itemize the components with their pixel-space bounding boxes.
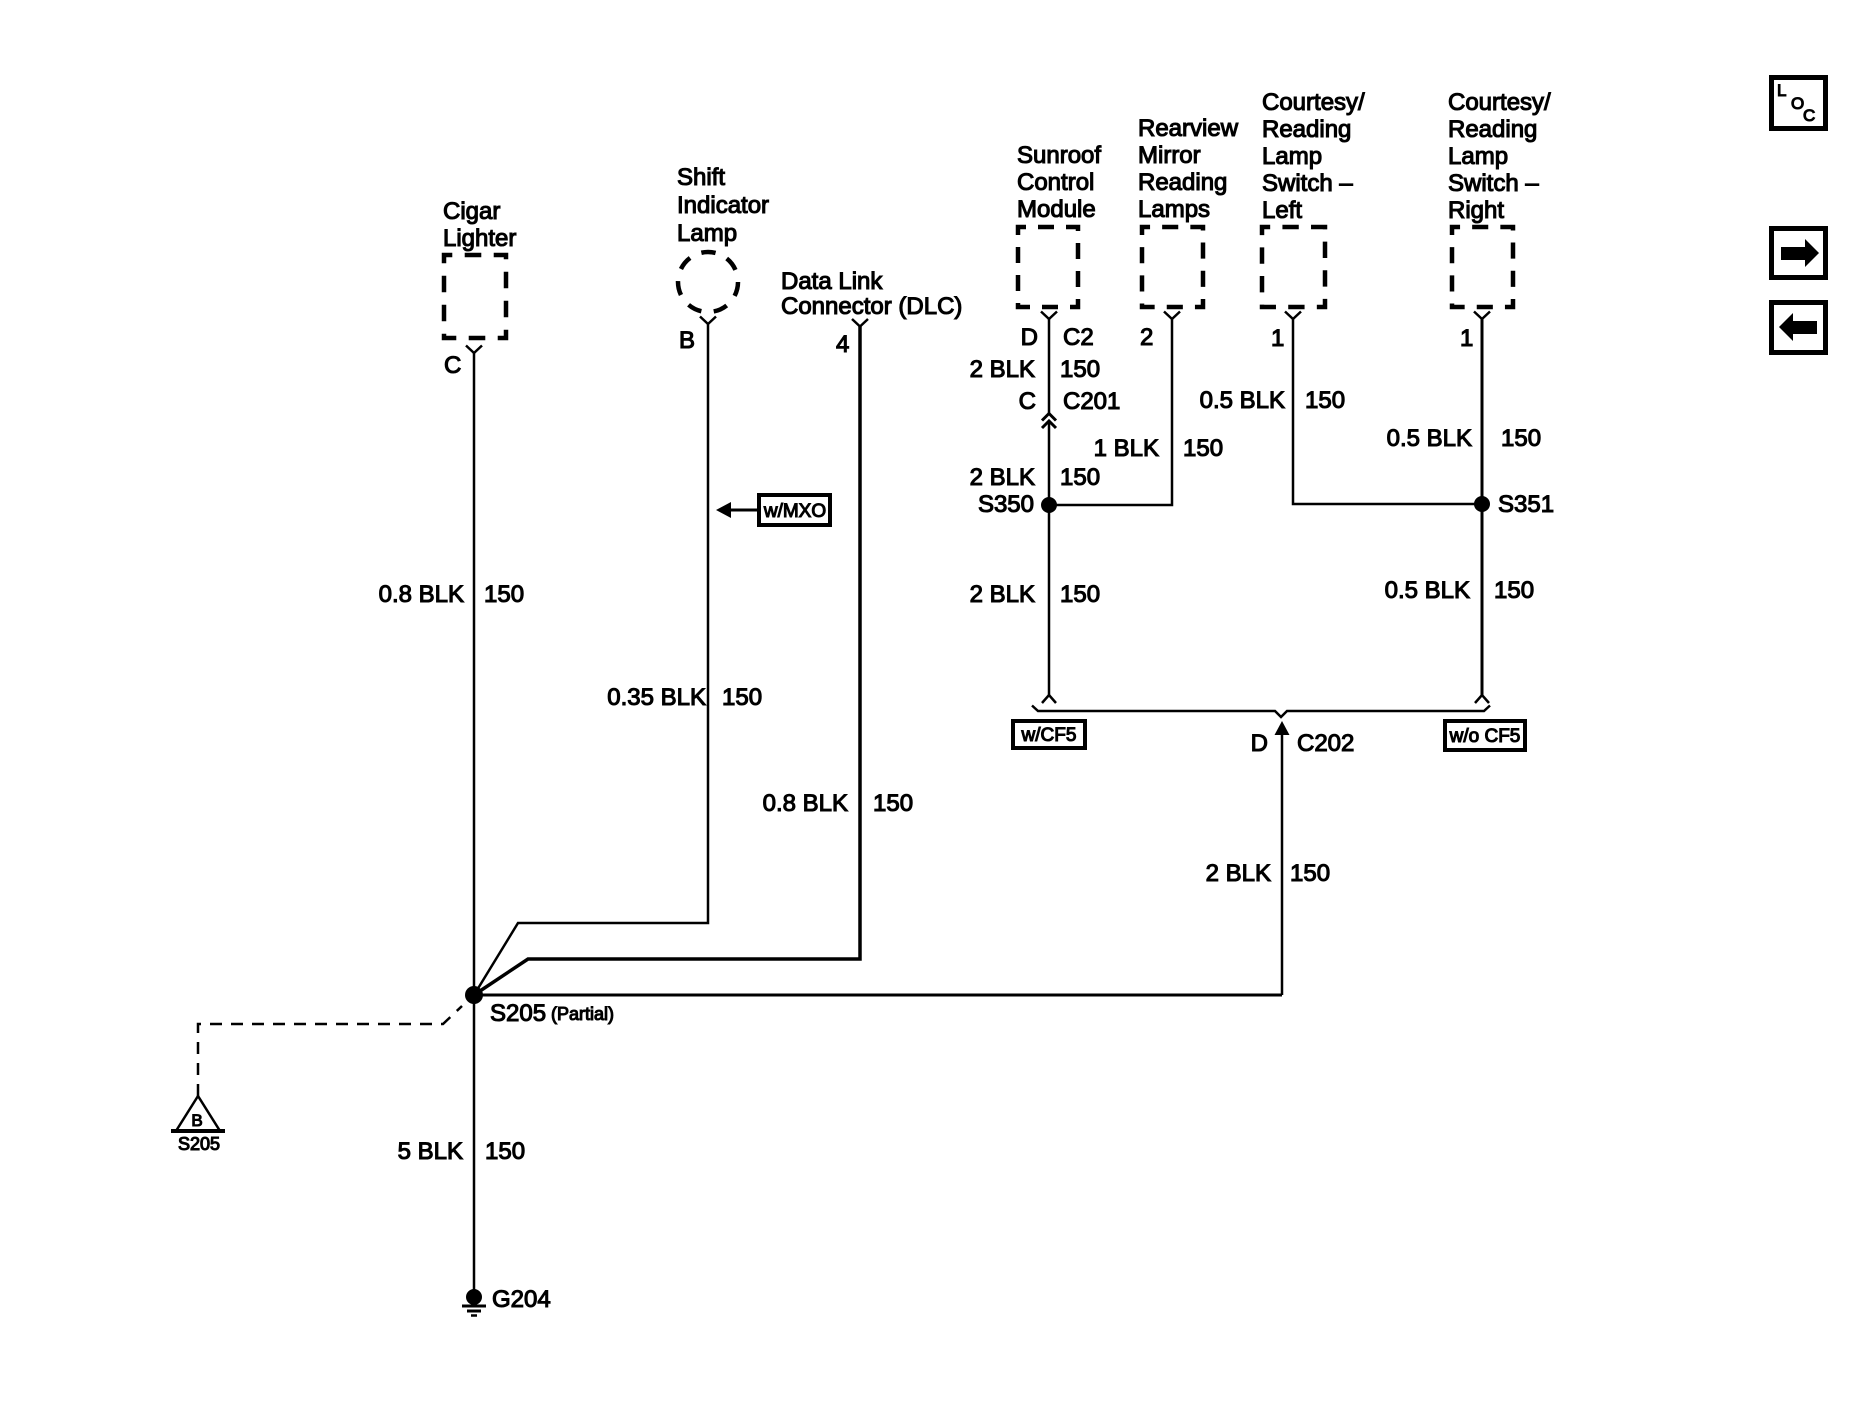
- svg-text:Connector (DLC): Connector (DLC): [781, 293, 962, 320]
- svg-text:L: L: [1777, 81, 1786, 100]
- svg-text:B: B: [191, 1111, 202, 1130]
- svg-text:G204: G204: [492, 1286, 551, 1313]
- svg-text:150: 150: [722, 684, 762, 711]
- svg-text:2: 2: [1140, 324, 1153, 351]
- svg-text:0.8 BLK: 0.8 BLK: [763, 790, 848, 817]
- svg-text:Reading: Reading: [1448, 116, 1537, 143]
- svg-text:Control: Control: [1017, 169, 1094, 196]
- svg-text:D: D: [1021, 324, 1038, 351]
- svg-text:C2: C2: [1063, 324, 1094, 351]
- svg-text:Sunroof: Sunroof: [1017, 142, 1101, 169]
- svg-text:Mirror: Mirror: [1138, 142, 1201, 169]
- svg-text:Shift: Shift: [677, 164, 725, 191]
- svg-text:Lamp: Lamp: [677, 220, 737, 247]
- svg-text:0.5 BLK: 0.5 BLK: [1387, 425, 1472, 452]
- svg-text:C: C: [1803, 106, 1815, 125]
- svg-text:S205: S205: [178, 1134, 220, 1154]
- svg-text:S350: S350: [978, 491, 1034, 518]
- svg-text:0.35 BLK: 0.35 BLK: [607, 684, 706, 711]
- svg-text:0.5 BLK: 0.5 BLK: [1385, 577, 1470, 604]
- svg-text:C201: C201: [1063, 388, 1120, 415]
- svg-text:Lamp: Lamp: [1262, 143, 1322, 170]
- svg-text:0.5 BLK: 0.5 BLK: [1200, 387, 1285, 414]
- svg-text:150: 150: [1060, 581, 1100, 608]
- svg-text:Courtesy/: Courtesy/: [1262, 89, 1365, 116]
- svg-text:Lamp: Lamp: [1448, 143, 1508, 170]
- svg-text:150: 150: [873, 790, 913, 817]
- svg-text:Lamps: Lamps: [1138, 196, 1210, 223]
- svg-text:4: 4: [836, 331, 849, 358]
- svg-text:150: 150: [1305, 387, 1345, 414]
- svg-text:150: 150: [1060, 464, 1100, 491]
- svg-text:Courtesy/: Courtesy/: [1448, 89, 1551, 116]
- svg-text:S351: S351: [1498, 491, 1554, 518]
- svg-text:Cigar: Cigar: [443, 198, 500, 225]
- svg-text:150: 150: [1501, 425, 1541, 452]
- svg-text:150: 150: [484, 581, 524, 608]
- svg-text:2 BLK: 2 BLK: [970, 581, 1035, 608]
- svg-text:Switch –: Switch –: [1448, 170, 1539, 197]
- svg-text:Reading: Reading: [1138, 169, 1227, 196]
- svg-text:Left: Left: [1262, 197, 1302, 224]
- svg-text:C202: C202: [1297, 730, 1354, 757]
- svg-text:(Partial): (Partial): [551, 1004, 614, 1024]
- svg-text:Switch –: Switch –: [1262, 170, 1353, 197]
- svg-text:150: 150: [1183, 435, 1223, 462]
- svg-text:Right: Right: [1448, 197, 1504, 224]
- svg-text:2 BLK: 2 BLK: [970, 464, 1035, 491]
- svg-text:Lighter: Lighter: [443, 225, 516, 252]
- svg-text:B: B: [679, 327, 695, 354]
- svg-text:w/CF5: w/CF5: [1021, 725, 1077, 746]
- svg-text:Rearview: Rearview: [1138, 115, 1239, 142]
- svg-text:Reading: Reading: [1262, 116, 1351, 143]
- svg-text:1: 1: [1460, 325, 1473, 352]
- svg-text:D: D: [1251, 730, 1268, 757]
- svg-text:S205: S205: [490, 1000, 546, 1027]
- svg-text:w/o CF5: w/o CF5: [1449, 726, 1521, 747]
- svg-text:2 BLK: 2 BLK: [970, 356, 1035, 383]
- svg-text:0.8 BLK: 0.8 BLK: [379, 581, 464, 608]
- svg-text:150: 150: [485, 1138, 525, 1165]
- svg-text:150: 150: [1290, 860, 1330, 887]
- svg-text:C: C: [444, 352, 461, 379]
- svg-text:Indicator: Indicator: [677, 192, 769, 219]
- svg-text:Module: Module: [1017, 196, 1096, 223]
- svg-text:1: 1: [1271, 325, 1284, 352]
- svg-text:Data Link: Data Link: [781, 268, 883, 295]
- svg-text:2 BLK: 2 BLK: [1206, 860, 1271, 887]
- svg-text:150: 150: [1060, 356, 1100, 383]
- svg-text:5 BLK: 5 BLK: [398, 1138, 463, 1165]
- svg-text:150: 150: [1494, 577, 1534, 604]
- svg-text:w/MXO: w/MXO: [763, 501, 826, 522]
- svg-text:C: C: [1019, 388, 1036, 415]
- svg-text:1 BLK: 1 BLK: [1094, 435, 1159, 462]
